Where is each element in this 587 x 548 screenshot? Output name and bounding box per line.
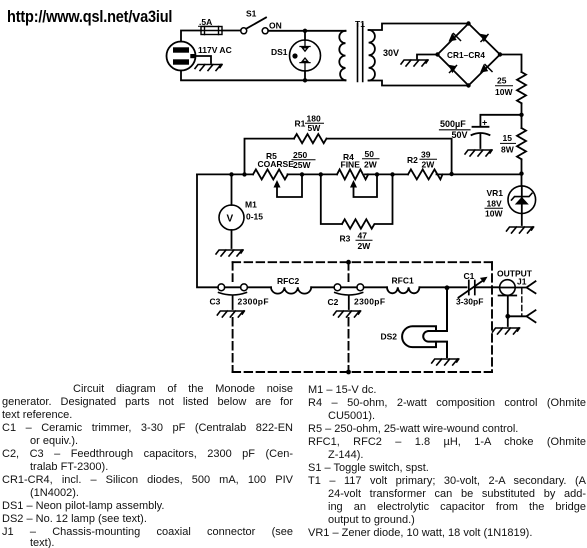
svg-text:M1: M1 (245, 200, 257, 210)
svg-text:V: V (227, 214, 234, 225)
choke RFC2 (247, 286, 271, 288)
wire plug safety ground (195, 56, 212, 63)
svg-text:COARSE: COARSE (258, 159, 295, 169)
potentiometer R4 (337, 169, 368, 179)
svg-text:VR1: VR1 (487, 188, 504, 198)
diode CR top-left (449, 33, 457, 42)
wire fuse to switch (222, 30, 241, 32)
svg-text:500µF: 500µF (440, 119, 466, 129)
svg-text:10W: 10W (495, 87, 513, 97)
resistor 15 8W (517, 128, 526, 159)
svg-text:ON: ON (269, 21, 282, 31)
node R3 right (390, 172, 394, 176)
lamp DS2 (429, 288, 448, 331)
svg-text:DS2: DS2 (381, 332, 398, 342)
svg-text:+: + (482, 118, 487, 128)
svg-text:15: 15 (503, 133, 513, 143)
wiper R4 (350, 180, 357, 188)
resistor 25 10W (517, 72, 526, 103)
svg-text:180: 180 (307, 114, 321, 124)
plug P1 (167, 42, 196, 71)
node R3 left (319, 172, 323, 176)
resistor R2 (408, 169, 442, 179)
svg-text:18V: 18V (487, 199, 502, 209)
ground (195, 65, 222, 71)
wire secondary top (369, 24, 469, 31)
resistor R3 (321, 174, 393, 228)
svg-text:25: 25 (497, 76, 507, 86)
svg-text:C1: C1 (464, 271, 475, 281)
feedthrough C3 (218, 284, 225, 291)
svg-text:2W: 2W (358, 241, 372, 251)
wire R1 branch (245, 139, 295, 175)
node C1 (445, 285, 450, 290)
wire switch to T1 (268, 30, 345, 32)
svg-text:3-30pF: 3-30pF (456, 297, 483, 307)
wire bottom AC (181, 71, 346, 81)
svg-text:OUTPUT: OUTPUT (497, 269, 533, 279)
node R1 left (242, 172, 246, 176)
switch S1 (241, 28, 247, 34)
svg-text:50: 50 (365, 149, 375, 159)
svg-text:.5A: .5A (199, 17, 212, 27)
svg-text:0-15: 0-15 (246, 212, 263, 222)
svg-text:2W: 2W (364, 160, 378, 170)
svg-text:S1: S1 (246, 9, 257, 19)
wire secondary bottom (369, 81, 469, 86)
wire plug top to fuse (181, 31, 201, 42)
wire bridge left to ground (417, 55, 438, 59)
wire bridge right to rail (500, 55, 522, 73)
diode CR bottom-left (449, 65, 457, 73)
svg-text:117V AC: 117V AC (198, 45, 232, 55)
svg-text:R3: R3 (340, 234, 351, 244)
svg-text:RFC2: RFC2 (277, 276, 299, 286)
svg-text:C2: C2 (328, 297, 339, 307)
zener VR1 (508, 186, 536, 214)
svg-text:250: 250 (293, 150, 307, 160)
svg-text:10W: 10W (485, 209, 503, 219)
shield box dashed (233, 262, 492, 372)
wiper R5 (274, 180, 281, 188)
main bus (197, 173, 522, 175)
trimmer C1 (447, 286, 467, 288)
svg-text:5W: 5W (308, 123, 322, 133)
svg-text:FINE: FINE (341, 160, 361, 170)
lamp DS1 (304, 31, 306, 40)
wire left drop (197, 174, 218, 287)
choke RFC1 (364, 286, 387, 288)
caption text (73, 383, 293, 395)
fuse .5A (201, 27, 222, 35)
svg-text:8W: 8W (501, 145, 515, 155)
svg-text:R1: R1 (295, 119, 306, 129)
svg-text:RFC1: RFC1 (392, 276, 414, 286)
svg-text:J1: J1 (517, 277, 527, 287)
meter M1 (231, 174, 233, 205)
potentiometer R5 (253, 169, 288, 179)
svg-text:R2: R2 (407, 155, 418, 165)
svg-text:25W: 25W (293, 160, 311, 170)
svg-text:DS1: DS1 (271, 47, 288, 57)
svg-text:2300pF: 2300pF (354, 297, 385, 307)
resistor R1 (294, 134, 326, 143)
node M1 (229, 172, 233, 176)
svg-text:2W: 2W (422, 160, 436, 170)
svg-text:CR1–CR4: CR1–CR4 (447, 51, 485, 60)
diode CR bottom-right (480, 64, 488, 73)
svg-text:C3: C3 (210, 297, 221, 307)
svg-text:T1: T1 (355, 19, 365, 29)
node top DS1 (303, 29, 307, 33)
diode CR top-right (480, 34, 488, 42)
capacitor 500uF (480, 115, 521, 127)
svg-text:30V: 30V (383, 48, 399, 58)
svg-text:47: 47 (358, 231, 368, 241)
svg-text:50V: 50V (452, 130, 468, 140)
feedthrough C2 (334, 284, 341, 291)
svg-text:2300pF: 2300pF (238, 297, 269, 307)
jack J1 (500, 280, 516, 296)
bridge CR1-CR4 (438, 24, 501, 86)
svg-text:39: 39 (421, 150, 431, 160)
